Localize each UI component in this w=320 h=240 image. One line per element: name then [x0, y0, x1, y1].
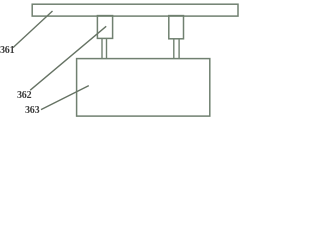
label 361: [0, 45, 14, 56]
label 363: [25, 105, 39, 116]
leader 363: [41, 86, 89, 110]
stem right wire: [173, 39, 175, 59]
label 362: [17, 90, 31, 101]
top rail 361: [32, 4, 238, 16]
hanger block right: [169, 16, 184, 39]
hanger block left 362: [97, 16, 112, 39]
leader 362: [30, 26, 106, 90]
leader 361: [13, 11, 53, 48]
body box 363: [77, 59, 210, 117]
stem left wire: [101, 38, 103, 58]
